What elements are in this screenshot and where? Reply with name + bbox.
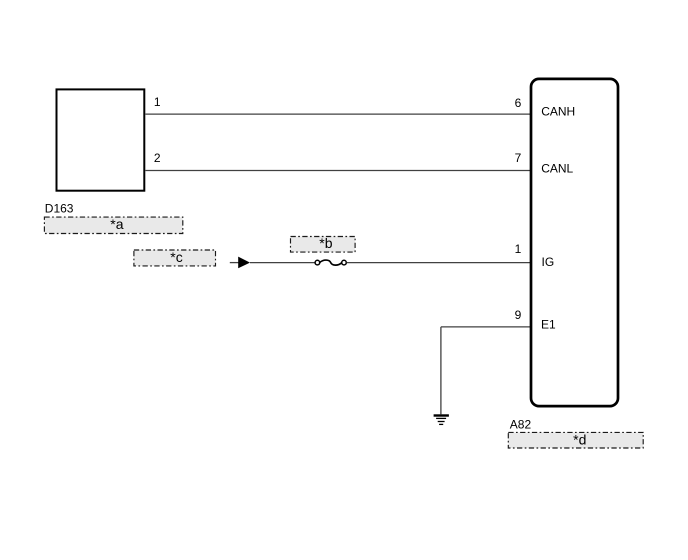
wire CANH (D163 pin 1 to A82 pin 6) (145, 113, 530, 115)
svg-text:A82: A82 (510, 418, 532, 432)
label box *d (508, 432, 643, 449)
wire CANL (D163 pin 2 to A82 pin 7) (145, 170, 530, 172)
svg-text:*b: *b (319, 235, 332, 251)
svg-text:2: 2 (154, 151, 161, 165)
wire E1 vertical drop (440, 327, 442, 414)
fuse symbol (315, 260, 346, 265)
svg-text:6: 6 (515, 96, 522, 110)
wire stub before arrow (IG feed) (230, 262, 239, 264)
svg-text:E1: E1 (541, 318, 556, 332)
svg-text:7: 7 (515, 151, 522, 165)
svg-text:1: 1 (154, 95, 161, 109)
svg-text:1: 1 (515, 242, 522, 256)
arrow (power source continuation) (238, 257, 250, 269)
label box *a (44, 216, 182, 234)
svg-text:D163: D163 (45, 202, 74, 216)
svg-text:CANL: CANL (541, 162, 573, 176)
svg-text:CANH: CANH (541, 105, 575, 119)
svg-text:9: 9 (515, 308, 522, 322)
component D163 (connector box) (57, 89, 145, 190)
svg-text:*a: *a (110, 216, 123, 232)
svg-text:*c: *c (170, 249, 182, 265)
ECU A82 (rounded box) (531, 79, 618, 406)
label box *b (291, 235, 356, 252)
label box *c (134, 249, 216, 266)
svg-text:*d: *d (573, 432, 586, 448)
wire E1 horizontal (441, 326, 531, 328)
svg-text:IG: IG (542, 255, 555, 269)
ground symbol (434, 416, 449, 425)
wire arrow to fuse (250, 262, 315, 264)
wire fuse to IG pin (347, 262, 531, 264)
